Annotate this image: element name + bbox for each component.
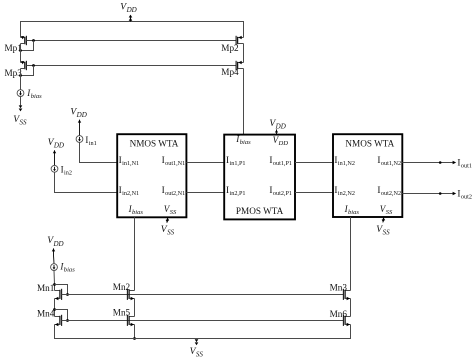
svg-text:Mn3: Mn3 [330,282,348,292]
node Mn4 drain [53,308,56,311]
power rail VSS (bottom) [54,338,351,340]
wire NMOS WTA 1 Ibias to Mn2 drain [134,217,136,290]
power symbol VSS below NMOS WTA 1 [166,217,169,223]
transistor Mn3 [345,290,350,292]
current source Ibias (bottom) [51,264,58,271]
svg-text:VSS: VSS [164,204,177,216]
wire Mn1 gate-to-drain link [55,285,68,295]
wire Mn4 source to VSS rail [54,325,56,339]
svg-text:Mp4: Mp4 [221,67,239,77]
wire Iin2 to NMOS WTA 1 input Iin2,N1 [55,172,118,192]
svg-text:VSS: VSS [13,114,27,127]
svg-text:NMOS WTA: NMOS WTA [345,138,394,148]
wire NMOS WTA 2 Ibias to Mn3 drain [350,217,352,291]
wire Mn2 source to Mn5 drain [134,299,136,317]
wire output Iout1 with arrow [402,162,453,164]
power rail VDD (top) [20,21,244,23]
node Mn5 source at rail [133,337,136,340]
svg-text:Mn6: Mn6 [330,309,348,319]
node Mp3 gate-drain junction [32,64,35,67]
svg-text:Mn2: Mn2 [113,282,131,292]
svg-text:VDD: VDD [273,135,289,147]
svg-text:Iin2,N1: Iin2,N1 [119,186,140,197]
wire gate row Mn4-Mn5-Mn6 [62,320,344,322]
svg-text:VSS: VSS [380,204,393,216]
wire Ibias to VSS [20,97,22,106]
svg-text:Iin2: Iin2 [61,164,72,176]
wire Iout1,P1 to Iin1,N2 [295,162,333,164]
svg-text:Ibias: Ibias [26,88,42,100]
wire Mp1 gate row to Mp2 gate [26,40,236,42]
node Mp3 drain [19,74,22,77]
power symbol VDD (top rail) [130,17,132,22]
wire Ibias to Mn1 drain [53,271,56,291]
current source Ibias (top left) [17,90,24,97]
svg-text:Iout2: Iout2 [457,189,472,200]
current source Iin1 [76,136,83,143]
power symbol VSS (bottom rail) [195,339,199,342]
svg-text:VSS: VSS [161,224,175,237]
wire Mp1 drain to Mp3 source [20,44,22,63]
transistor Mp3 (diode-connected PMOS) [21,62,25,64]
wire Iout1,N1 to Iin1,P1 [186,162,224,164]
transistor Mp1 (diode-connected PMOS) [21,37,25,39]
wire Mp4 drain to PMOS WTA Ibias input [243,69,245,136]
svg-text:Mp1: Mp1 [5,43,23,53]
node Mn1 gate junction [66,293,69,296]
wire output Iout2 with arrow [402,193,453,195]
wire Iout2,P1 to Iin2,N2 [295,192,333,194]
svg-text:PMOS WTA: PMOS WTA [236,206,284,216]
svg-text:Iout2,N2: Iout2,N2 [377,186,401,197]
svg-text:Iin2,N2: Iin2,N2 [334,186,355,197]
svg-text:Mn1: Mn1 [37,283,55,293]
block U2 PMOS WTA [224,135,295,220]
transistor Mn2 [129,290,134,292]
svg-text:Iout1,P1: Iout1,P1 [269,156,292,167]
current source Iin2 [51,165,58,172]
wire Iin1 to NMOS WTA 1 input Iin1,N1 [80,142,118,162]
wire Iout2,N1 to Iin2,P1 [186,192,224,194]
block U3 NMOS WTA (second) [333,134,402,217]
wire Mp2 drain to Mp4 source [243,44,245,63]
block U1 NMOS WTA (first) [117,134,186,217]
transistor Mp4 [238,62,244,64]
svg-text:NMOS WTA: NMOS WTA [130,138,179,148]
wire Mn4 gate-to-drain link [55,310,68,321]
svg-text:VDD: VDD [120,1,136,14]
svg-text:VDD: VDD [269,118,285,131]
wire Mn6 source to VSS rail [350,325,352,339]
svg-text:Iout1,N2: Iout1,N2 [377,156,401,167]
node Mp1 drain [19,49,22,52]
svg-text:VDD: VDD [48,137,64,150]
wire Mp1 gate-to-drain link [21,41,34,51]
wire Mp3 gate-to-drain link [21,66,34,76]
svg-text:Ibias: Ibias [128,204,144,216]
transistor Mp2 [238,37,244,39]
svg-text:Iin1,N2: Iin1,N2 [334,156,355,167]
wire gate row Mn1-Mn2-Mn3 [62,294,344,296]
transistor Mn6 [345,316,350,318]
svg-text:Ibias: Ibias [59,262,75,274]
node Mn4 gate junction [66,319,69,322]
wire Mp3 gate row to Mp4 gate [26,65,236,67]
svg-text:Iin1,P1: Iin1,P1 [226,156,246,167]
wire Mn3 source to Mn6 drain [350,299,352,317]
transistor Mn1 (diode-connected NMOS) [55,290,60,292]
power symbol VSS below NMOS WTA 2 [382,217,385,223]
svg-text:Mn5: Mn5 [113,308,131,318]
wire VDD rail to Mp2 source [243,22,245,38]
wire Mp3 drain to current source [20,69,22,90]
svg-text:Iin2,P1: Iin2,P1 [226,186,246,197]
svg-text:Iin1: Iin1 [85,135,96,147]
svg-text:VDD: VDD [47,235,63,248]
svg-text:VSS: VSS [190,346,204,358]
svg-text:Iout1: Iout1 [457,158,472,169]
svg-text:Ibias: Ibias [344,204,360,216]
svg-text:Ibias: Ibias [235,134,251,146]
node Mn1 drain [53,283,56,286]
svg-text:Iout2,N1: Iout2,N1 [162,186,186,197]
wire Mn1 source to Mn4 drain [54,299,56,317]
svg-text:Iout2,P1: Iout2,P1 [269,186,292,197]
transistor Mn4 (diode-connected NMOS) [55,316,60,318]
power symbol VSS (top left) [19,105,23,108]
svg-text:Mn4: Mn4 [37,309,55,319]
svg-text:Iout1,N1: Iout1,N1 [162,156,186,167]
svg-text:Mp2: Mp2 [221,43,239,53]
transistor Mn5 [129,316,134,318]
svg-text:VSS: VSS [376,224,390,237]
svg-text:VDD: VDD [70,106,86,119]
svg-text:Iin1,N1: Iin1,N1 [119,156,140,167]
node Mp1 gate-drain junction [32,39,35,42]
wire VDD rail to Mp1 source [20,22,22,38]
wire VDD to Ibias (bottom) [53,255,56,264]
wire Mn5 source to VSS rail [134,325,136,339]
